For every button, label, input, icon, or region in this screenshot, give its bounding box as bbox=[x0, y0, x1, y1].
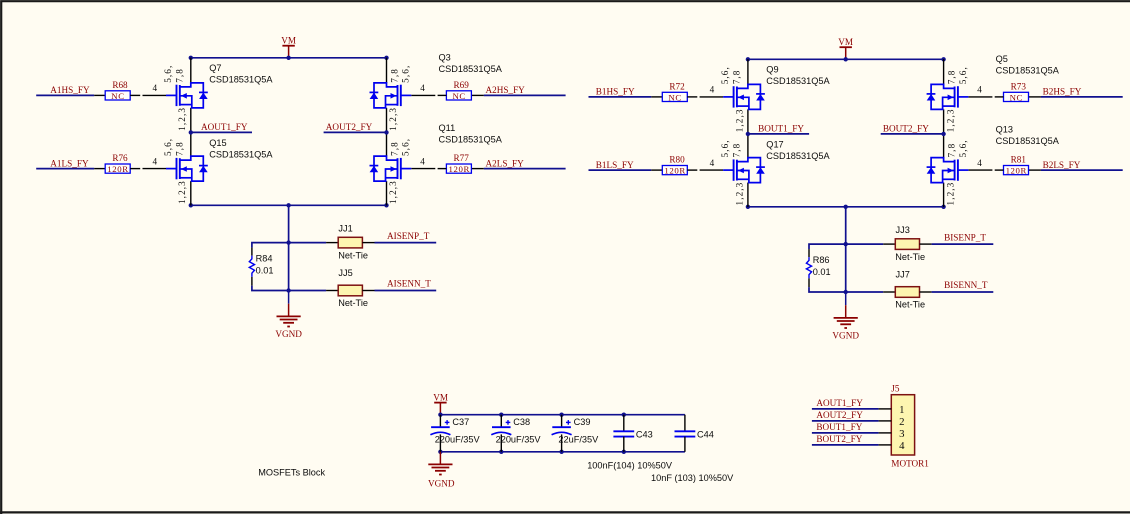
svg-text:1,2,3: 1,2,3 bbox=[734, 108, 744, 132]
svg-text:R84: R84 bbox=[256, 254, 273, 264]
wire source bottom rail bbox=[191, 204, 387, 206]
svg-text:C39: C39 bbox=[574, 417, 591, 427]
junction bottom rail mid bbox=[286, 203, 290, 207]
svg-text:1: 1 bbox=[899, 404, 904, 416]
wire J5 pin 4 bbox=[879, 444, 892, 446]
wire JJ5 right pin bbox=[362, 290, 374, 292]
wire net BOUT1_FY to J5 bbox=[812, 432, 879, 434]
svg-text:0.01: 0.01 bbox=[256, 266, 274, 276]
wire sense branch to R84 bbox=[252, 243, 289, 248]
svg-text:Q3: Q3 bbox=[439, 52, 451, 62]
svg-text:CSD18531Q5A: CSD18531Q5A bbox=[209, 150, 273, 160]
svg-text:AISENP_T: AISENP_T bbox=[387, 231, 430, 241]
transistor Q17 CSD18531Q5A bbox=[747, 132, 749, 157]
svg-text:4: 4 bbox=[420, 156, 425, 166]
svg-text:R81: R81 bbox=[1011, 155, 1027, 165]
capacitor C37 220uF/35V bbox=[439, 415, 441, 428]
svg-text:4: 4 bbox=[710, 85, 715, 95]
wire net BOUT1_FY bbox=[748, 133, 809, 135]
svg-text:7,8: 7,8 bbox=[946, 143, 956, 158]
svg-text:CSD18531Q5A: CSD18531Q5A bbox=[439, 135, 503, 145]
junction top rail VM bbox=[844, 57, 848, 61]
wire gate to R73 bbox=[968, 96, 992, 98]
wire J5 pin 1 bbox=[879, 408, 892, 410]
svg-text:AOUT1_FY: AOUT1_FY bbox=[816, 398, 863, 408]
power port VGND (cap bank) bbox=[439, 452, 441, 465]
power port VM (B block) bbox=[840, 46, 852, 48]
capacitor C43 100nF bbox=[623, 415, 625, 432]
junction top rail cap 2 bbox=[499, 413, 503, 417]
power port VGND (B block) bbox=[845, 292, 847, 305]
svg-text:Q15: Q15 bbox=[209, 138, 226, 148]
svg-text:Net-Tie: Net-Tie bbox=[338, 250, 368, 260]
wire source bottom rail bbox=[748, 206, 944, 208]
svg-text:1,2,3: 1,2,3 bbox=[945, 182, 955, 206]
wire VGND cap bottom rail bbox=[440, 451, 685, 453]
svg-text:10nF (103) 10%50V: 10nF (103) 10%50V bbox=[651, 473, 734, 483]
svg-text:5,6,: 5,6, bbox=[958, 139, 968, 157]
svg-text:220uF/35V: 220uF/35V bbox=[496, 435, 542, 445]
power port VM (A block) bbox=[282, 45, 294, 47]
wire R77 right pin bbox=[471, 168, 483, 170]
svg-text:J5: J5 bbox=[891, 384, 900, 394]
svg-text:5,6,: 5,6, bbox=[720, 139, 730, 157]
junction sense node N bbox=[844, 290, 848, 294]
junction sense node P bbox=[844, 242, 848, 246]
wire R76 to gate bbox=[130, 168, 140, 170]
wire R76 left pin bbox=[94, 168, 105, 170]
svg-text:R73: R73 bbox=[1011, 81, 1027, 91]
svg-text:NC: NC bbox=[668, 92, 681, 102]
wire sense node to JJ5 bbox=[289, 290, 327, 292]
wire net BOUT2_FY to J5 bbox=[812, 444, 879, 446]
net-tie JJ3 bbox=[895, 239, 919, 250]
svg-text:R77: R77 bbox=[454, 153, 470, 163]
wire R81 right pin bbox=[1029, 169, 1041, 171]
svg-text:Net-Tie: Net-Tie bbox=[895, 252, 925, 262]
svg-text:AOUT2_FY: AOUT2_FY bbox=[326, 122, 373, 132]
wire net B2LS_FY bbox=[1041, 169, 1123, 171]
wire JJ3 right pin bbox=[920, 243, 932, 245]
wire net AOUT1_FY bbox=[191, 131, 252, 133]
svg-text:1,2,3: 1,2,3 bbox=[177, 180, 187, 204]
svg-text:Q11: Q11 bbox=[439, 123, 456, 133]
junction sense node P bbox=[286, 240, 290, 244]
wire sense node to JJ3 bbox=[846, 243, 884, 245]
junction top rail cap 3 bbox=[559, 413, 563, 417]
svg-text:R86: R86 bbox=[813, 255, 830, 265]
svg-text:4: 4 bbox=[899, 440, 905, 452]
wire R69 right pin bbox=[471, 94, 483, 96]
svg-text:120R: 120R bbox=[1006, 166, 1027, 176]
resistor R72 bbox=[662, 92, 687, 101]
wire JJ7 right pin bbox=[920, 291, 932, 293]
svg-text:R80: R80 bbox=[669, 155, 685, 165]
transistor Q7 CSD18531Q5A bbox=[190, 58, 192, 83]
resistor R80 bbox=[662, 166, 687, 175]
wire net AISENN_T bbox=[375, 290, 437, 292]
junction node BOUT1_FY bbox=[746, 132, 750, 136]
svg-text:JJ7: JJ7 bbox=[896, 270, 910, 280]
junction bottom rail left bbox=[746, 205, 750, 209]
svg-text:MOTOR1: MOTOR1 bbox=[891, 459, 929, 469]
wire gate to R81 bbox=[968, 169, 992, 171]
wire bottom rail to sense node bbox=[845, 207, 847, 292]
svg-text:CSD18531Q5A: CSD18531Q5A bbox=[996, 65, 1060, 75]
junction bottom rail right bbox=[941, 205, 945, 209]
transistor Q5 CSD18531Q5A bbox=[943, 59, 945, 84]
svg-text:CSD18531Q5A: CSD18531Q5A bbox=[209, 75, 273, 85]
wire JJ5 left pin bbox=[326, 290, 338, 292]
svg-text:A1HS_FY: A1HS_FY bbox=[50, 85, 90, 95]
svg-text:1,2,3: 1,2,3 bbox=[734, 182, 744, 206]
svg-text:NC: NC bbox=[452, 91, 465, 101]
svg-text:7,8: 7,8 bbox=[389, 68, 399, 83]
junction node AOUT1_FY bbox=[189, 130, 193, 134]
transistor Q3 CSD18531Q5A bbox=[386, 58, 388, 83]
transistor Q9 CSD18531Q5A bbox=[747, 59, 749, 84]
svg-text:AOUT2_FY: AOUT2_FY bbox=[816, 410, 863, 420]
wire net A1HS_FY bbox=[36, 94, 94, 96]
svg-text:VM: VM bbox=[281, 36, 296, 46]
wire net B1HS_FY bbox=[589, 96, 652, 98]
svg-text:BOUT2_FY: BOUT2_FY bbox=[883, 124, 929, 134]
svg-text:BOUT1_FY: BOUT1_FY bbox=[816, 422, 862, 432]
wire net A2HS_FY bbox=[484, 94, 566, 96]
wire net AOUT1_FY to J5 bbox=[812, 408, 879, 410]
wire net B1LS_FY bbox=[589, 169, 652, 171]
junction sense node N bbox=[286, 288, 290, 292]
capacitor C44 10nF bbox=[684, 415, 686, 432]
svg-text:R72: R72 bbox=[669, 81, 685, 91]
junction top rail VM bbox=[286, 56, 290, 60]
wire R72 to gate bbox=[687, 96, 697, 98]
junction node AOUT2_FY bbox=[384, 130, 388, 134]
svg-text:5,6,: 5,6, bbox=[163, 138, 173, 156]
junction top rail right bbox=[941, 57, 945, 61]
svg-text:7,8: 7,8 bbox=[174, 68, 184, 83]
wire JJ7 left pin bbox=[883, 291, 895, 293]
svg-text:BISENP_T: BISENP_T bbox=[944, 232, 986, 242]
power port VM (cap bank) bbox=[434, 402, 446, 404]
resistor R69 bbox=[446, 91, 471, 100]
svg-text:CSD18531Q5A: CSD18531Q5A bbox=[996, 136, 1060, 146]
svg-text:VM: VM bbox=[433, 392, 448, 402]
svg-text:4: 4 bbox=[977, 85, 982, 95]
svg-text:C38: C38 bbox=[513, 417, 530, 427]
svg-text:Net-Tie: Net-Tie bbox=[338, 298, 368, 308]
junction bottom rail cap 4 bbox=[622, 450, 626, 454]
transistor Q11 CSD18531Q5A bbox=[386, 131, 388, 156]
wire net BISENP_T bbox=[932, 243, 994, 245]
junction node BOUT2_FY bbox=[941, 132, 945, 136]
wire net A2LS_FY bbox=[484, 168, 566, 170]
svg-text:BOUT1_FY: BOUT1_FY bbox=[758, 124, 804, 134]
svg-text:100nF(104) 10%50V: 100nF(104) 10%50V bbox=[587, 460, 673, 470]
svg-text:CSD18531Q5A: CSD18531Q5A bbox=[439, 64, 503, 74]
wire R80 left pin bbox=[651, 169, 662, 171]
svg-text:R76: R76 bbox=[112, 153, 128, 163]
svg-text:Q9: Q9 bbox=[766, 65, 778, 75]
svg-text:5,6,: 5,6, bbox=[401, 138, 411, 156]
junction bottom rail cap 2 bbox=[499, 450, 503, 454]
wire VM top rail bbox=[748, 58, 944, 60]
resistor R81 bbox=[1004, 166, 1029, 175]
svg-text:A1LS_FY: A1LS_FY bbox=[50, 158, 89, 168]
transistor Q13 CSD18531Q5A bbox=[943, 132, 945, 157]
svg-text:MOSFETs Block: MOSFETs Block bbox=[258, 468, 325, 478]
wire R84 to sense node N bbox=[252, 286, 289, 291]
svg-text:120R: 120R bbox=[664, 166, 685, 176]
power port VGND (A block) bbox=[288, 291, 290, 304]
svg-text:2: 2 bbox=[899, 416, 904, 428]
junction bottom rail cap 1 bbox=[438, 450, 442, 454]
svg-text:Net-Tie: Net-Tie bbox=[895, 300, 925, 310]
svg-text:AISENN_T: AISENN_T bbox=[387, 279, 431, 289]
svg-text:CSD18531Q5A: CSD18531Q5A bbox=[766, 76, 830, 86]
svg-text:B2LS_FY: B2LS_FY bbox=[1043, 160, 1081, 170]
svg-text:B1LS_FY: B1LS_FY bbox=[596, 160, 634, 170]
junction bottom rail left bbox=[189, 203, 193, 207]
svg-text:VGND: VGND bbox=[428, 479, 455, 489]
svg-text:4: 4 bbox=[710, 158, 715, 168]
svg-text:7,8: 7,8 bbox=[389, 141, 399, 156]
svg-text:BISENN_T: BISENN_T bbox=[944, 280, 988, 290]
svg-text:Q7: Q7 bbox=[209, 63, 221, 73]
junction bottom rail mid bbox=[844, 205, 848, 209]
svg-text:C37: C37 bbox=[452, 417, 469, 427]
wire J5 pin 3 bbox=[879, 432, 892, 434]
svg-text:AOUT1_FY: AOUT1_FY bbox=[201, 122, 248, 132]
transistor Q15 CSD18531Q5A bbox=[190, 131, 192, 156]
svg-text:4: 4 bbox=[153, 83, 158, 93]
capacitor C38 220uF/35V bbox=[500, 415, 502, 428]
svg-text:1,2,3: 1,2,3 bbox=[388, 180, 398, 204]
svg-text:JJ3: JJ3 bbox=[896, 225, 910, 235]
svg-text:JJ1: JJ1 bbox=[338, 224, 352, 234]
svg-text:5,6,: 5,6, bbox=[720, 66, 730, 84]
resistor R77 bbox=[446, 164, 471, 173]
wire net BOUT2_FY bbox=[881, 133, 944, 135]
wire JJ3 left pin bbox=[883, 243, 895, 245]
wire J5 pin 2 bbox=[879, 420, 892, 422]
svg-text:1,2,3: 1,2,3 bbox=[945, 108, 955, 132]
svg-text:R69: R69 bbox=[454, 80, 470, 90]
wire bottom rail to sense node bbox=[288, 205, 290, 290]
svg-text:7,8: 7,8 bbox=[174, 141, 184, 156]
svg-text:B1HS_FY: B1HS_FY bbox=[596, 87, 635, 97]
wire JJ1 left pin bbox=[326, 242, 338, 244]
net-tie JJ5 bbox=[338, 285, 362, 296]
wire R86 to sense node N bbox=[809, 287, 846, 292]
svg-text:7,8: 7,8 bbox=[732, 143, 742, 158]
svg-text:1,2,3: 1,2,3 bbox=[388, 107, 398, 131]
wire R73 right pin bbox=[1029, 96, 1041, 98]
svg-text:5,6,: 5,6, bbox=[401, 65, 411, 83]
wire gate to R77 bbox=[411, 168, 435, 170]
svg-text:4: 4 bbox=[153, 156, 158, 166]
junction top rail right bbox=[384, 56, 388, 60]
wire sense node to JJ7 bbox=[846, 291, 884, 293]
wire R84 bottom pin bbox=[251, 277, 253, 286]
junction top rail cap 4 bbox=[622, 413, 626, 417]
junction top rail cap 1 bbox=[438, 413, 442, 417]
svg-text:4: 4 bbox=[977, 158, 982, 168]
svg-text:A2HS_FY: A2HS_FY bbox=[486, 85, 526, 95]
wire JJ1 right pin bbox=[362, 242, 374, 244]
wire R80 to gate bbox=[687, 169, 697, 171]
net-tie JJ1 bbox=[338, 237, 362, 248]
net-tie JJ7 bbox=[895, 287, 919, 298]
capacitor C39 22uF/35V bbox=[561, 415, 563, 428]
resistor R68 bbox=[105, 91, 130, 100]
wire R86 bottom pin bbox=[808, 278, 810, 287]
svg-text:Q5: Q5 bbox=[996, 54, 1008, 64]
wire net AOUT2_FY bbox=[324, 131, 387, 133]
svg-text:NC: NC bbox=[111, 91, 124, 101]
svg-text:R68: R68 bbox=[112, 80, 128, 90]
wire R68 left pin bbox=[94, 94, 105, 96]
svg-text:CSD18531Q5A: CSD18531Q5A bbox=[766, 151, 830, 161]
wire R68 to gate bbox=[130, 94, 140, 96]
wire net AOUT2_FY to J5 bbox=[812, 420, 879, 422]
svg-text:VM: VM bbox=[838, 37, 853, 47]
junction bottom rail right bbox=[384, 203, 388, 207]
wire gate to R69 bbox=[411, 94, 435, 96]
svg-text:220uF/35V: 220uF/35V bbox=[435, 435, 481, 445]
svg-text:7,8: 7,8 bbox=[732, 70, 742, 85]
svg-text:4: 4 bbox=[420, 83, 425, 93]
wire net B2HS_FY bbox=[1041, 96, 1123, 98]
svg-text:3: 3 bbox=[899, 428, 904, 440]
connector J5 MOTOR1 bbox=[891, 395, 914, 455]
wire R72 left pin bbox=[651, 96, 662, 98]
svg-text:5,6,: 5,6, bbox=[163, 65, 173, 83]
wire net BISENN_T bbox=[932, 291, 994, 293]
wire sense branch to R86 bbox=[809, 244, 846, 249]
svg-text:1,2,3: 1,2,3 bbox=[177, 107, 187, 131]
wire R84 top pin bbox=[251, 248, 253, 256]
wire net AISENP_T bbox=[375, 242, 437, 244]
resistor R84 0.01 shunt bbox=[249, 256, 254, 277]
junction top rail left bbox=[746, 57, 750, 61]
svg-text:B2HS_FY: B2HS_FY bbox=[1043, 87, 1082, 97]
svg-text:A2LS_FY: A2LS_FY bbox=[486, 158, 525, 168]
junction bottom rail cap 3 bbox=[559, 450, 563, 454]
wire VM top rail bbox=[191, 57, 387, 59]
junction top rail left bbox=[189, 56, 193, 60]
svg-text:VGND: VGND bbox=[275, 329, 302, 339]
resistor R73 bbox=[1004, 92, 1029, 101]
svg-text:VGND: VGND bbox=[832, 330, 859, 340]
wire VM cap top rail bbox=[440, 414, 685, 416]
svg-text:0.01: 0.01 bbox=[813, 267, 831, 277]
wire sense node to JJ1 bbox=[289, 242, 327, 244]
svg-text:22uF/35V: 22uF/35V bbox=[558, 435, 599, 445]
svg-text:JJ5: JJ5 bbox=[338, 268, 352, 278]
wire net A1LS_FY bbox=[36, 168, 94, 170]
resistor R76 bbox=[105, 164, 130, 173]
resistor R86 0.01 shunt bbox=[806, 257, 811, 278]
svg-text:C43: C43 bbox=[636, 429, 653, 439]
wire R86 top pin bbox=[808, 249, 810, 257]
svg-text:5,6,: 5,6, bbox=[958, 66, 968, 84]
svg-text:BOUT2_FY: BOUT2_FY bbox=[816, 434, 862, 444]
svg-text:7,8: 7,8 bbox=[946, 70, 956, 85]
svg-text:Q13: Q13 bbox=[996, 125, 1013, 135]
svg-text:C44: C44 bbox=[697, 429, 714, 439]
svg-text:120R: 120R bbox=[107, 164, 128, 174]
svg-text:Q17: Q17 bbox=[766, 140, 783, 150]
svg-text:120R: 120R bbox=[448, 164, 469, 174]
svg-text:NC: NC bbox=[1010, 92, 1023, 102]
